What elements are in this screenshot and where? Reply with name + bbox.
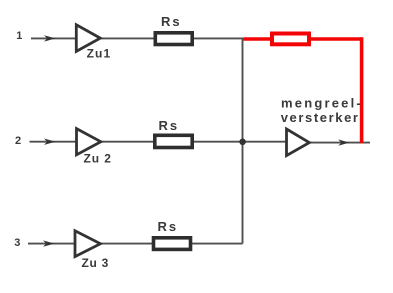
svg-text:2: 2 xyxy=(15,135,21,147)
svg-text:Rs: Rs xyxy=(158,219,179,234)
svg-text:Rs: Rs xyxy=(159,118,180,133)
svg-text:Zu 2: Zu 2 xyxy=(84,152,112,166)
svg-text:1: 1 xyxy=(16,30,22,42)
svg-text:3: 3 xyxy=(14,237,20,249)
svg-text:Rs: Rs xyxy=(161,14,182,29)
svg-text:Zu 3: Zu 3 xyxy=(82,256,109,270)
svg-text:versterker: versterker xyxy=(281,110,360,125)
svg-text:mengreel-: mengreel- xyxy=(281,96,363,111)
svg-text:Zu1: Zu1 xyxy=(87,47,112,61)
